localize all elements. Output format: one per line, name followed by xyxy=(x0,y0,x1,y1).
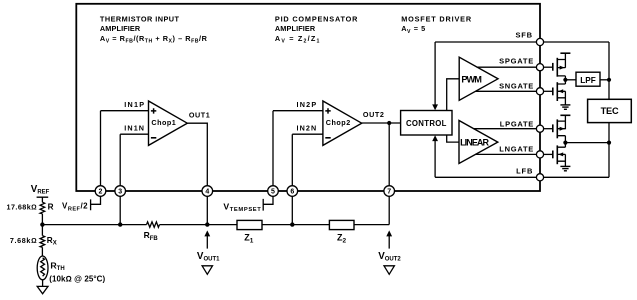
IC boundary box xyxy=(76,4,540,191)
svg-text:PWM: PWM xyxy=(461,74,482,84)
amplifier LINEAR xyxy=(459,121,498,164)
header thermistor input amplifier xyxy=(100,15,208,45)
transistor Q1 SPGATE PMOS xyxy=(544,53,571,80)
ground RTH open triangle xyxy=(37,286,48,293)
svg-text:4: 4 xyxy=(205,189,209,196)
block LPF xyxy=(576,72,600,86)
svg-text:R: R xyxy=(48,203,54,212)
transistor Q3 LPGATE PMOS xyxy=(544,115,571,142)
node left rail junction xyxy=(40,222,44,226)
ground VOUT2 open triangle xyxy=(384,266,394,275)
svg-text:Z2: Z2 xyxy=(337,232,347,244)
pin LFB xyxy=(536,174,543,181)
wire SFB to CONTROL xyxy=(435,42,536,105)
svg-text:OUT2: OUT2 xyxy=(363,110,384,119)
svg-text:AMPLIFIER: AMPLIFIER xyxy=(100,24,141,33)
header MOSFET driver xyxy=(401,15,472,35)
svg-text:VOUT2: VOUT2 xyxy=(378,251,401,263)
svg-text:AMPLIFIER: AMPLIFIER xyxy=(275,24,316,33)
wire CONTROL to PWM xyxy=(447,79,460,111)
pin 5 xyxy=(268,186,279,197)
wire IN1P xyxy=(101,111,149,186)
resistor RX xyxy=(40,236,45,248)
op-amp Chop1 xyxy=(149,101,188,145)
svg-text:LPGATE: LPGATE xyxy=(500,119,534,128)
svg-text:IN2N: IN2N xyxy=(297,124,317,133)
node pin3 on rail xyxy=(118,222,122,226)
svg-text:VTEMPSET: VTEMPSET xyxy=(223,202,261,214)
svg-text:6: 6 xyxy=(290,189,294,196)
arrowhead into CONTROL top xyxy=(432,104,438,110)
svg-text:RTH: RTH xyxy=(50,260,64,272)
node L on TEC rail xyxy=(607,141,611,145)
svg-text:VREF: VREF xyxy=(31,184,50,196)
pin 4 xyxy=(202,186,213,197)
svg-text:AV = Z2/Z1: AV = Z2/Z1 xyxy=(275,34,320,45)
node LPF output on TEC rail xyxy=(607,78,611,82)
svg-text:LPF: LPF xyxy=(580,76,595,85)
svg-text:IN2P: IN2P xyxy=(297,100,317,109)
wire VREF/2 hook to pin 2 xyxy=(91,196,101,210)
transistor Q2 SNGATE NMOS xyxy=(544,80,566,105)
block TEC xyxy=(588,99,632,122)
svg-text:SFB: SFB xyxy=(516,31,533,40)
svg-text:(10kΩ @ 25°C): (10kΩ @ 25°C) xyxy=(49,275,105,284)
svg-text:PID COMPENSATOR: PID COMPENSATOR xyxy=(275,15,358,24)
node S mid junction xyxy=(563,78,567,82)
pin 7 xyxy=(384,186,395,197)
wire LPF to TEC rail xyxy=(600,79,609,81)
svg-text:LINEAR: LINEAR xyxy=(460,138,489,148)
wire SNGATE xyxy=(475,90,536,92)
svg-text:7: 7 xyxy=(387,189,391,196)
header PID compensator amplifier xyxy=(275,15,358,45)
wire pin 7 down xyxy=(388,196,390,224)
svg-text:TEC: TEC xyxy=(601,106,619,116)
ground Q2 source xyxy=(560,105,570,109)
svg-text:SNGATE: SNGATE xyxy=(499,82,533,91)
wire VTEMPSET hook to pin 5 xyxy=(263,196,273,210)
svg-text:3: 3 xyxy=(118,189,122,196)
wire node to LPF xyxy=(565,79,576,81)
wire R to node xyxy=(41,214,43,236)
pin 3 xyxy=(115,186,126,197)
svg-text:7.68kΩ: 7.68kΩ xyxy=(10,236,37,245)
impedance Z2 xyxy=(329,220,354,244)
svg-text:Chop2: Chop2 xyxy=(326,118,350,127)
svg-text:17.68kΩ: 17.68kΩ xyxy=(7,203,37,212)
wire IN2N xyxy=(292,134,323,186)
svg-text:LNGATE: LNGATE xyxy=(499,145,533,154)
wire VREF to resistor R xyxy=(37,197,49,202)
pin SPGATE xyxy=(536,64,543,71)
wire IN1N xyxy=(120,134,148,186)
transistor Q4 LNGATE NMOS xyxy=(544,143,566,167)
pin SNGATE xyxy=(536,88,543,95)
wire pin 6 down xyxy=(291,196,293,224)
wire L node to TEC rail xyxy=(565,142,609,144)
wire OUT1 xyxy=(187,123,208,186)
pin 2 xyxy=(95,186,106,197)
wire LFB to TEC bottom xyxy=(544,123,609,178)
wire SPGATE xyxy=(477,66,537,68)
wire LNGATE xyxy=(475,153,536,155)
amplifier PWM xyxy=(459,57,498,100)
svg-text:VREF/2: VREF/2 xyxy=(62,202,88,213)
wire SFB to TEC top xyxy=(544,42,609,99)
svg-text:Chop1: Chop1 xyxy=(151,118,175,127)
wire RTH to ground xyxy=(42,280,44,287)
svg-text:RX: RX xyxy=(47,236,57,247)
pin LPGATE xyxy=(536,125,543,132)
svg-text:MOSFET DRIVER: MOSFET DRIVER xyxy=(401,15,472,24)
pin 6 xyxy=(287,186,298,197)
node L mid junction xyxy=(563,141,567,145)
svg-text:THERMISTOR INPUT: THERMISTOR INPUT xyxy=(100,15,180,24)
arrowhead into CONTROL bottom xyxy=(432,135,438,141)
svg-text:RFB: RFB xyxy=(144,230,159,242)
op-amp Chop2 xyxy=(323,101,362,145)
node pin6 on rail xyxy=(290,222,294,226)
impedance Z1 xyxy=(237,220,262,244)
svg-text:2: 2 xyxy=(99,189,103,196)
pin SFB xyxy=(536,38,543,45)
svg-text:5: 5 xyxy=(271,189,275,196)
ground VOUT1 open triangle xyxy=(202,266,212,275)
svg-text:AV = RFB/(RTH + RX) – RFB/R: AV = RFB/(RTH + RX) – RFB/R xyxy=(100,34,208,45)
node pin4 on rail xyxy=(205,222,209,226)
svg-text:Z1: Z1 xyxy=(244,232,254,244)
svg-text:IN1P: IN1P xyxy=(124,100,144,109)
junction OUT2 / pin 7 xyxy=(387,121,391,125)
wire CONTROL to LINEAR xyxy=(447,135,459,142)
wire RX to RTH xyxy=(41,247,43,256)
wire OUT2 xyxy=(361,123,400,186)
arrow VOUT2 xyxy=(386,230,392,248)
svg-text:SPGATE: SPGATE xyxy=(499,56,533,65)
svg-text:OUT1: OUT1 xyxy=(189,111,210,120)
arrow VOUT1 xyxy=(204,230,210,248)
wire pin 4 down xyxy=(206,196,208,224)
thermistor RTH xyxy=(37,256,48,280)
pin LNGATE xyxy=(536,151,543,158)
wire LFB to CONTROL xyxy=(435,141,536,178)
svg-text:LFB: LFB xyxy=(516,167,533,176)
svg-text:VOUT1: VOUT1 xyxy=(197,251,220,263)
svg-text:CONTROL: CONTROL xyxy=(406,119,447,128)
resistor RFB xyxy=(147,222,160,227)
wire IN2P xyxy=(273,111,323,186)
wire LPGATE xyxy=(473,128,536,130)
svg-text:IN1N: IN1N xyxy=(124,124,144,133)
resistor R xyxy=(40,202,45,214)
block CONTROL xyxy=(401,111,452,136)
wire pin 3 down xyxy=(119,196,121,224)
bottom rail xyxy=(42,224,389,226)
ground Q4 source xyxy=(560,166,570,170)
svg-text:AV = 5: AV = 5 xyxy=(401,24,425,35)
